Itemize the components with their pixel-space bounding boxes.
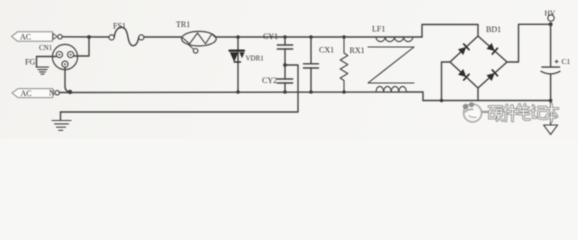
- node L tick: [53, 34, 57, 40]
- watermark dash: [482, 111, 489, 113]
- svg-text:CN1: CN1: [39, 44, 53, 52]
- diode D3 (bottom-left edge): [458, 69, 469, 80]
- inductor LF1 bottom winding: [376, 86, 406, 92]
- node VDR1 bottom: [236, 90, 240, 94]
- terminal HV: [548, 15, 554, 21]
- watermark text 硬件笔记本 (drawn strokes, outlined style): [489, 104, 558, 122]
- svg-text:VDR1: VDR1: [246, 55, 265, 63]
- svg-text:LF1: LF1: [372, 25, 385, 34]
- CN1 pin3 (bottom): [62, 61, 68, 67]
- capacitor CX1: [310, 37, 312, 92]
- svg-text:CY1: CY1: [263, 32, 278, 41]
- fuse FS1: [109, 35, 114, 40]
- node junction L/CN1: [87, 35, 91, 39]
- diode D2 (top-right edge): [486, 43, 497, 54]
- pin circle L: [58, 35, 62, 39]
- node junction N/CN1: [68, 90, 72, 94]
- capacitor CY2: [277, 79, 292, 83]
- capacitor C1 electrolytic: [542, 66, 560, 68]
- wire N rail to bridge: [423, 100, 551, 102]
- net label AC (L) flag: [12, 32, 53, 41]
- wire CY mid to ground bus: [61, 65, 299, 112]
- wire bridge + output to HV: [507, 24, 551, 62]
- CN1 pin1 (left): [56, 52, 62, 58]
- watermark logo circle: [463, 102, 489, 122]
- ground bus earth: [60, 112, 62, 120]
- 记: [532, 106, 548, 119]
- plus sign C1: [555, 60, 558, 63]
- core of LF1 (Z): [368, 47, 414, 83]
- 本: [546, 104, 558, 122]
- svg-text:BD1: BD1: [486, 25, 501, 34]
- diode D4 (bottom-right edge): [486, 70, 497, 81]
- wire L over bridge: [422, 25, 478, 38]
- svg-text:AC: AC: [20, 33, 31, 42]
- ground (open triangle): [544, 125, 558, 135]
- svg-text:HV: HV: [545, 9, 556, 18]
- ground FG earth: [36, 67, 48, 74]
- wire CN1 pin1 to FG: [37, 57, 57, 68]
- svg-text:FS1: FS1: [113, 22, 126, 31]
- connector CN1 body: [52, 44, 77, 69]
- diode D1 (top-left edge): [458, 44, 469, 55]
- svg-text:FG: FG: [25, 58, 35, 67]
- wire bridge bottom corner drop: [477, 88, 479, 101]
- node VDR1 top: [236, 35, 240, 39]
- wire junction down to CN1 pin2: [74, 37, 89, 56]
- svg-text:N: N: [49, 89, 55, 98]
- inductor LF1 top winding: [376, 37, 413, 42]
- 件: [504, 105, 517, 121]
- wire rail riser to left corner: [442, 62, 451, 101]
- wire TR1 to filter: [216, 36, 422, 38]
- node HV junction: [549, 22, 553, 26]
- node C1 bottom rail: [549, 99, 553, 103]
- wire L label to fuse: [62, 36, 109, 38]
- wire HV down to C1: [550, 24, 552, 67]
- svg-text:RX1: RX1: [350, 46, 365, 55]
- wire fuse to TR1: [144, 36, 182, 38]
- node CY mid tap: [283, 63, 287, 67]
- node CY2 bottom: [283, 90, 287, 94]
- svg-text:AC: AC: [21, 89, 32, 98]
- bridge BD1 diamond: [450, 36, 507, 88]
- svg-text:CY2: CY2: [262, 76, 277, 85]
- wire CN1 pin3 down to N wire: [65, 67, 70, 92]
- 硬: [489, 107, 503, 121]
- 笔: [518, 105, 530, 120]
- node CY1 top: [283, 35, 287, 39]
- pin circle N: [55, 91, 59, 95]
- capacitor CY1: [284, 37, 286, 45]
- svg-text:TR1: TR1: [176, 20, 190, 29]
- resistor RX1: [340, 37, 348, 92]
- net label AC (N) flag: [12, 89, 53, 98]
- wire N: [59, 92, 423, 101]
- varistor VDR1: [237, 37, 239, 92]
- svg-text:C1: C1: [562, 57, 571, 66]
- svg-text:CX1: CX1: [319, 46, 334, 55]
- thermistor TR1: [182, 31, 217, 46]
- CN1 pin2 (right): [68, 52, 74, 58]
